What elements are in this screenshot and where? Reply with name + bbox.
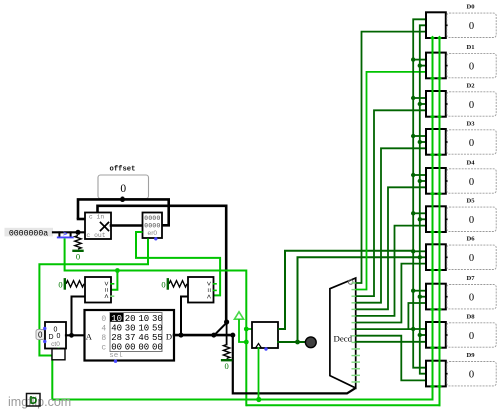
pin D3 box xyxy=(447,130,496,154)
svg-text:0: 0 xyxy=(469,100,474,111)
svg-text:0: 0 xyxy=(161,280,165,290)
ground tick R2 xyxy=(64,279,66,288)
svg-text:D: D xyxy=(166,331,172,341)
pin D2 box xyxy=(447,92,496,116)
svg-text:4: 4 xyxy=(101,325,106,334)
svg-text:0: 0 xyxy=(469,370,474,381)
junction reg left xyxy=(244,327,249,332)
svg-text:ct0: ct0 xyxy=(51,341,60,348)
decoder inner pin marks xyxy=(352,282,355,284)
svg-text:er0: er0 xyxy=(148,230,158,237)
svg-text:0: 0 xyxy=(101,315,106,324)
register D1 box xyxy=(426,53,446,79)
svg-text:D0: D0 xyxy=(466,4,475,11)
wire comp2 B down xyxy=(181,297,188,336)
svg-text:<: < xyxy=(102,294,111,299)
junction offset xyxy=(120,197,125,202)
wire column clk vertical xyxy=(432,38,434,400)
svg-text:0: 0 xyxy=(76,252,80,262)
comparator U2 out stubs xyxy=(111,283,114,285)
wire decoder out9 to D8 xyxy=(356,341,426,343)
junctions pin2 xyxy=(418,63,422,67)
wire er0 left to comp2 xyxy=(136,232,220,295)
wire D4 out xyxy=(446,180,447,182)
wire D9 out xyxy=(446,373,447,375)
svg-text:0: 0 xyxy=(469,138,474,149)
junction reg clock xyxy=(256,397,261,402)
ground tick R4 xyxy=(222,359,231,361)
subcircuit ct0 label box xyxy=(52,349,65,360)
wire D6 out xyxy=(446,256,447,258)
watermark glyph xyxy=(31,396,36,403)
comparator U3 box xyxy=(188,277,214,303)
register D4 box xyxy=(426,168,446,194)
pin D1 box xyxy=(447,53,496,77)
svg-text:D6: D6 xyxy=(466,236,475,243)
wire out7 to D7 xyxy=(408,303,426,329)
wire decoder out2 to D2 xyxy=(356,110,426,296)
svg-text:0: 0 xyxy=(57,333,61,340)
wire main vertical xyxy=(245,271,247,406)
wire reg left pin xyxy=(246,328,252,330)
svg-text:0: 0 xyxy=(224,361,228,371)
wire rail G2 xyxy=(246,38,439,405)
decoder unused stubs xyxy=(356,348,360,350)
wire D0 out xyxy=(446,24,447,26)
stubs pins1and2 xyxy=(413,59,426,61)
subcircuit ct0 bottom pin xyxy=(58,349,60,352)
svg-text:>: > xyxy=(102,281,111,286)
svg-text:D: D xyxy=(49,334,54,341)
wire ct0 to ROM A xyxy=(66,334,85,336)
junction comp1 eq xyxy=(115,268,120,273)
wire buffer in xyxy=(239,319,246,342)
register D3 box xyxy=(426,129,446,155)
multiplier U1 box xyxy=(85,213,111,240)
ground tick R3 xyxy=(167,279,169,288)
wire decoder out7 bus xyxy=(356,328,414,330)
wire splitter down xyxy=(65,239,247,271)
svg-text:D4: D4 xyxy=(466,159,475,166)
register D9 box xyxy=(426,361,446,387)
svg-text:00: 00 xyxy=(125,342,136,352)
wire decoder out4 to D4 xyxy=(356,187,426,309)
svg-text:00: 00 xyxy=(111,342,122,352)
wire Q led net xyxy=(298,257,420,342)
svg-text:0: 0 xyxy=(469,21,474,32)
svg-text:sel: sel xyxy=(109,352,123,360)
subcircuit ct0 blue pins xyxy=(43,327,46,330)
register D5 box xyxy=(426,206,446,232)
svg-text:0: 0 xyxy=(469,331,474,342)
wire pin1 vertical xyxy=(413,19,426,367)
svg-text:0: 0 xyxy=(469,215,474,226)
wire D7 out xyxy=(446,296,447,298)
subcircuit ct0 box xyxy=(45,322,66,349)
junction buffer xyxy=(244,340,249,345)
svg-text:<: < xyxy=(205,294,214,299)
junction const xyxy=(75,230,80,235)
register D6 box xyxy=(426,244,446,270)
ROM highlight xyxy=(110,313,124,322)
svg-text:0: 0 xyxy=(469,253,474,264)
svg-text:D3: D3 xyxy=(466,120,475,127)
wire offset to mult A xyxy=(78,218,85,221)
svg-text:=: = xyxy=(102,288,111,293)
resistor pull R4 xyxy=(223,345,229,359)
wire mult out bus xyxy=(111,224,143,227)
svg-text:00: 00 xyxy=(152,342,163,352)
wire D2 out xyxy=(446,103,447,105)
wire decoder out8 to D9 xyxy=(356,336,426,381)
svg-text:c out: c out xyxy=(86,232,105,239)
pin D6 box xyxy=(447,245,496,269)
resistor pull R3 xyxy=(169,281,187,287)
resistor pull-down R1 xyxy=(75,236,81,250)
svg-text:0: 0 xyxy=(469,61,474,72)
subcircuit er0 box xyxy=(143,213,163,239)
wire D1 out xyxy=(446,65,447,67)
svg-text:D7: D7 xyxy=(466,275,475,282)
junction D sel xyxy=(230,333,235,338)
register REG1 clock mark xyxy=(256,344,262,349)
svg-text:Decd: Decd xyxy=(334,334,353,344)
switch lever xyxy=(214,322,228,336)
svg-text:A: A xyxy=(86,331,93,341)
decoder Decd body xyxy=(330,278,356,388)
register D0 box xyxy=(426,12,446,38)
pin offset box xyxy=(98,175,149,199)
decoder enable circle xyxy=(348,280,353,285)
svg-text:0: 0 xyxy=(120,183,126,195)
wire D8 out xyxy=(446,334,447,336)
pin D5 box xyxy=(447,207,496,231)
svg-text:D9: D9 xyxy=(466,352,475,359)
pin D4 box xyxy=(447,169,496,193)
svg-text:00: 00 xyxy=(138,342,149,352)
wire comp1 B down xyxy=(72,297,86,336)
wire D5 out xyxy=(446,218,447,220)
svg-text:D1: D1 xyxy=(466,44,474,51)
pin D9 box xyxy=(447,362,496,386)
wire comp1 eq out xyxy=(111,271,117,290)
wire decoder out3 to D3 xyxy=(356,148,426,302)
register D8 box xyxy=(426,322,446,348)
svg-text:D2: D2 xyxy=(466,82,475,89)
svg-text:0: 0 xyxy=(38,331,43,340)
wire P reg out xyxy=(278,251,413,329)
pin D8 box xyxy=(447,323,496,347)
pin ct0 out box xyxy=(36,330,45,340)
wire decoder out5 to D5 xyxy=(356,226,426,316)
svg-text:=: = xyxy=(205,288,214,293)
pins column bottom xyxy=(430,36,435,41)
subcircuit er0 blue pin xyxy=(154,237,157,240)
register D7 box xyxy=(426,284,446,310)
LED1 xyxy=(305,337,316,348)
wire pin2 vertical xyxy=(420,25,426,373)
wire D to decoder sel xyxy=(233,335,355,393)
wire mult c-in loop xyxy=(98,206,227,322)
junction D switch xyxy=(211,333,216,338)
watermark box xyxy=(27,394,41,407)
svg-text:0: 0 xyxy=(58,280,62,290)
junction ct0 wire xyxy=(69,333,74,338)
svg-text:0: 0 xyxy=(469,293,474,304)
wire decoder out1 to D1 xyxy=(356,72,426,290)
comparator U2 box xyxy=(85,277,111,303)
svg-text:0000000a: 0000000a xyxy=(9,229,48,238)
wire reg clock down xyxy=(258,348,260,400)
wire decoder out0 to D0 xyxy=(356,32,426,283)
wire er0 bottom loop xyxy=(39,239,148,400)
svg-text:0: 0 xyxy=(469,177,474,188)
junction D comp2 xyxy=(179,333,184,338)
wire ROM D out xyxy=(174,334,233,337)
svg-text:c: c xyxy=(101,343,106,352)
ROM sel pin xyxy=(114,360,117,363)
pin D7 box xyxy=(447,285,496,309)
svg-text:offset: offset xyxy=(110,166,136,174)
multiplier U1 cross xyxy=(101,223,109,231)
wire column data vertical xyxy=(439,38,441,405)
ROM box xyxy=(85,310,175,361)
resistor pull R2 xyxy=(66,281,84,287)
svg-text:D5: D5 xyxy=(466,198,475,205)
junction lever top xyxy=(224,319,229,324)
wire decoder out6 to D6 xyxy=(356,264,426,323)
svg-text:c in: c in xyxy=(89,214,105,221)
buffer B1 xyxy=(234,312,243,319)
svg-text:D8: D8 xyxy=(466,313,475,320)
junctions pin1 xyxy=(411,57,415,61)
comparator U3 out stubs xyxy=(214,283,217,285)
wire reg to LED xyxy=(278,341,306,343)
splitter hooks xyxy=(58,231,60,236)
svg-text:8: 8 xyxy=(101,334,106,343)
pin D0 box xyxy=(447,13,496,37)
wire offset bus xyxy=(78,199,169,225)
wire rail G1 xyxy=(52,38,432,400)
ROM table xyxy=(110,313,162,352)
ground tick R1 xyxy=(74,250,83,252)
pin offset stub xyxy=(122,198,124,200)
register REG1 blue pin xyxy=(264,347,267,350)
wire lever down xyxy=(226,322,228,345)
wire D3 out xyxy=(446,141,447,143)
register REG1 box xyxy=(252,322,278,348)
svg-text:>: > xyxy=(205,281,214,286)
constant 0000000a bg xyxy=(5,228,54,237)
wire const to mult xyxy=(53,231,85,233)
splitter blue line xyxy=(58,236,73,238)
register D2 box xyxy=(426,91,446,117)
junction Q led xyxy=(295,340,300,345)
